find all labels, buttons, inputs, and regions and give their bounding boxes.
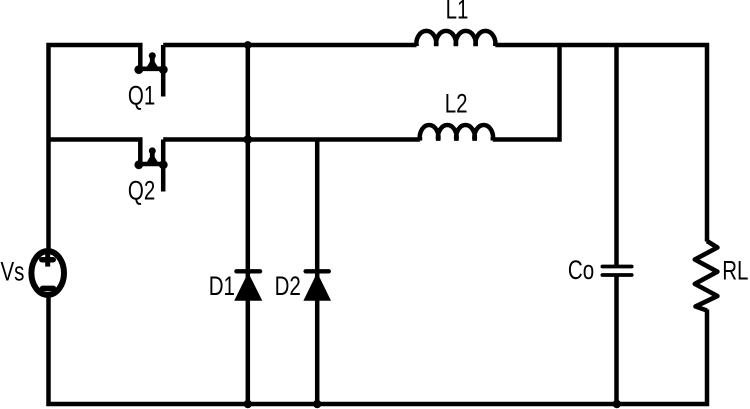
- svg-text:D2: D2: [275, 271, 301, 301]
- svg-text:Q1: Q1: [128, 81, 155, 111]
- svg-text:L1: L1: [446, 0, 469, 25]
- svg-text:Vs: Vs: [1, 257, 25, 287]
- svg-text:Co: Co: [568, 255, 594, 285]
- svg-text:D1: D1: [209, 271, 235, 301]
- svg-text:L2: L2: [445, 89, 468, 119]
- svg-text:RL: RL: [722, 256, 748, 286]
- svg-text:Q2: Q2: [128, 176, 155, 206]
